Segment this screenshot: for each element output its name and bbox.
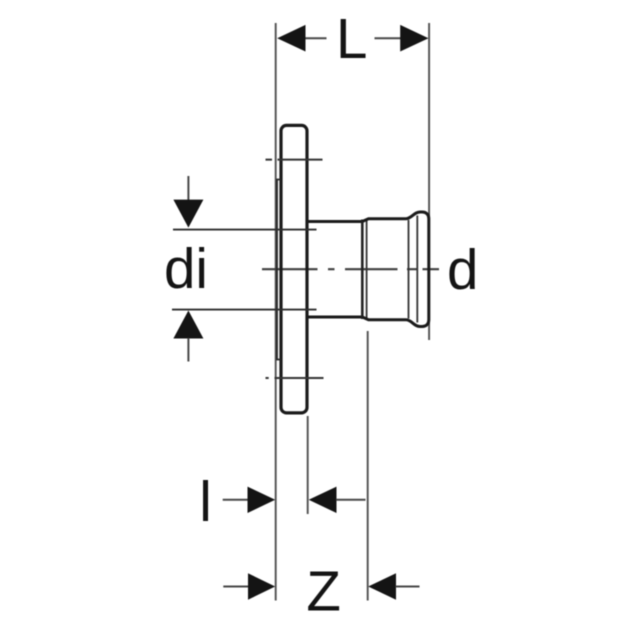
dimension di tail bottom <box>187 338 189 362</box>
socket and press bead outline <box>362 212 429 327</box>
centerline (horizontal dash-dot axis) <box>262 268 439 270</box>
dimension l arrow left <box>248 487 276 513</box>
bore inner diameter line top <box>173 229 317 231</box>
dimension Z tail left <box>223 586 249 588</box>
dimension L tail left <box>305 37 327 39</box>
flange bolt centerline top <box>266 159 323 161</box>
extension line left (flange gasket face, for L, l, Z) <box>275 23 277 601</box>
dimension L arrow left <box>277 25 305 52</box>
extension line flange back face (for l) <box>307 416 309 514</box>
dimension l tail left <box>223 499 248 501</box>
dimension l arrow right <box>309 487 337 513</box>
flange raised face line <box>277 180 281 360</box>
svg-text:L: L <box>336 7 367 70</box>
dimension L arrow right <box>400 25 428 52</box>
bead transition line 2 <box>416 216 418 323</box>
press socket tube top edge <box>307 220 362 223</box>
press socket tube bottom edge <box>307 316 362 319</box>
dimension l tail right <box>336 499 366 501</box>
dimension Z arrow right <box>368 573 396 599</box>
extension line socket end (for L) <box>428 23 430 340</box>
svg-text:di: di <box>164 237 208 300</box>
dimension di tail top <box>187 176 189 200</box>
flange body <box>281 125 307 413</box>
bead transition line 1 <box>408 220 410 319</box>
svg-text:d: d <box>447 238 478 301</box>
extension line socket mouth (for Z) <box>367 331 369 601</box>
socket mouth rim <box>361 220 364 320</box>
dimension Z tail right <box>396 586 420 588</box>
flange bolt centerline bottom <box>266 377 324 379</box>
svg-text:l: l <box>199 470 212 533</box>
dimension L tail right <box>375 37 401 39</box>
dimension di arrow up <box>173 311 203 339</box>
dimension Z arrow left <box>248 573 275 599</box>
bore inner diameter line bottom <box>172 309 317 311</box>
dimension di arrow down <box>173 200 203 228</box>
socket mouth inner line <box>366 220 368 320</box>
svg-text:Z: Z <box>306 560 341 623</box>
